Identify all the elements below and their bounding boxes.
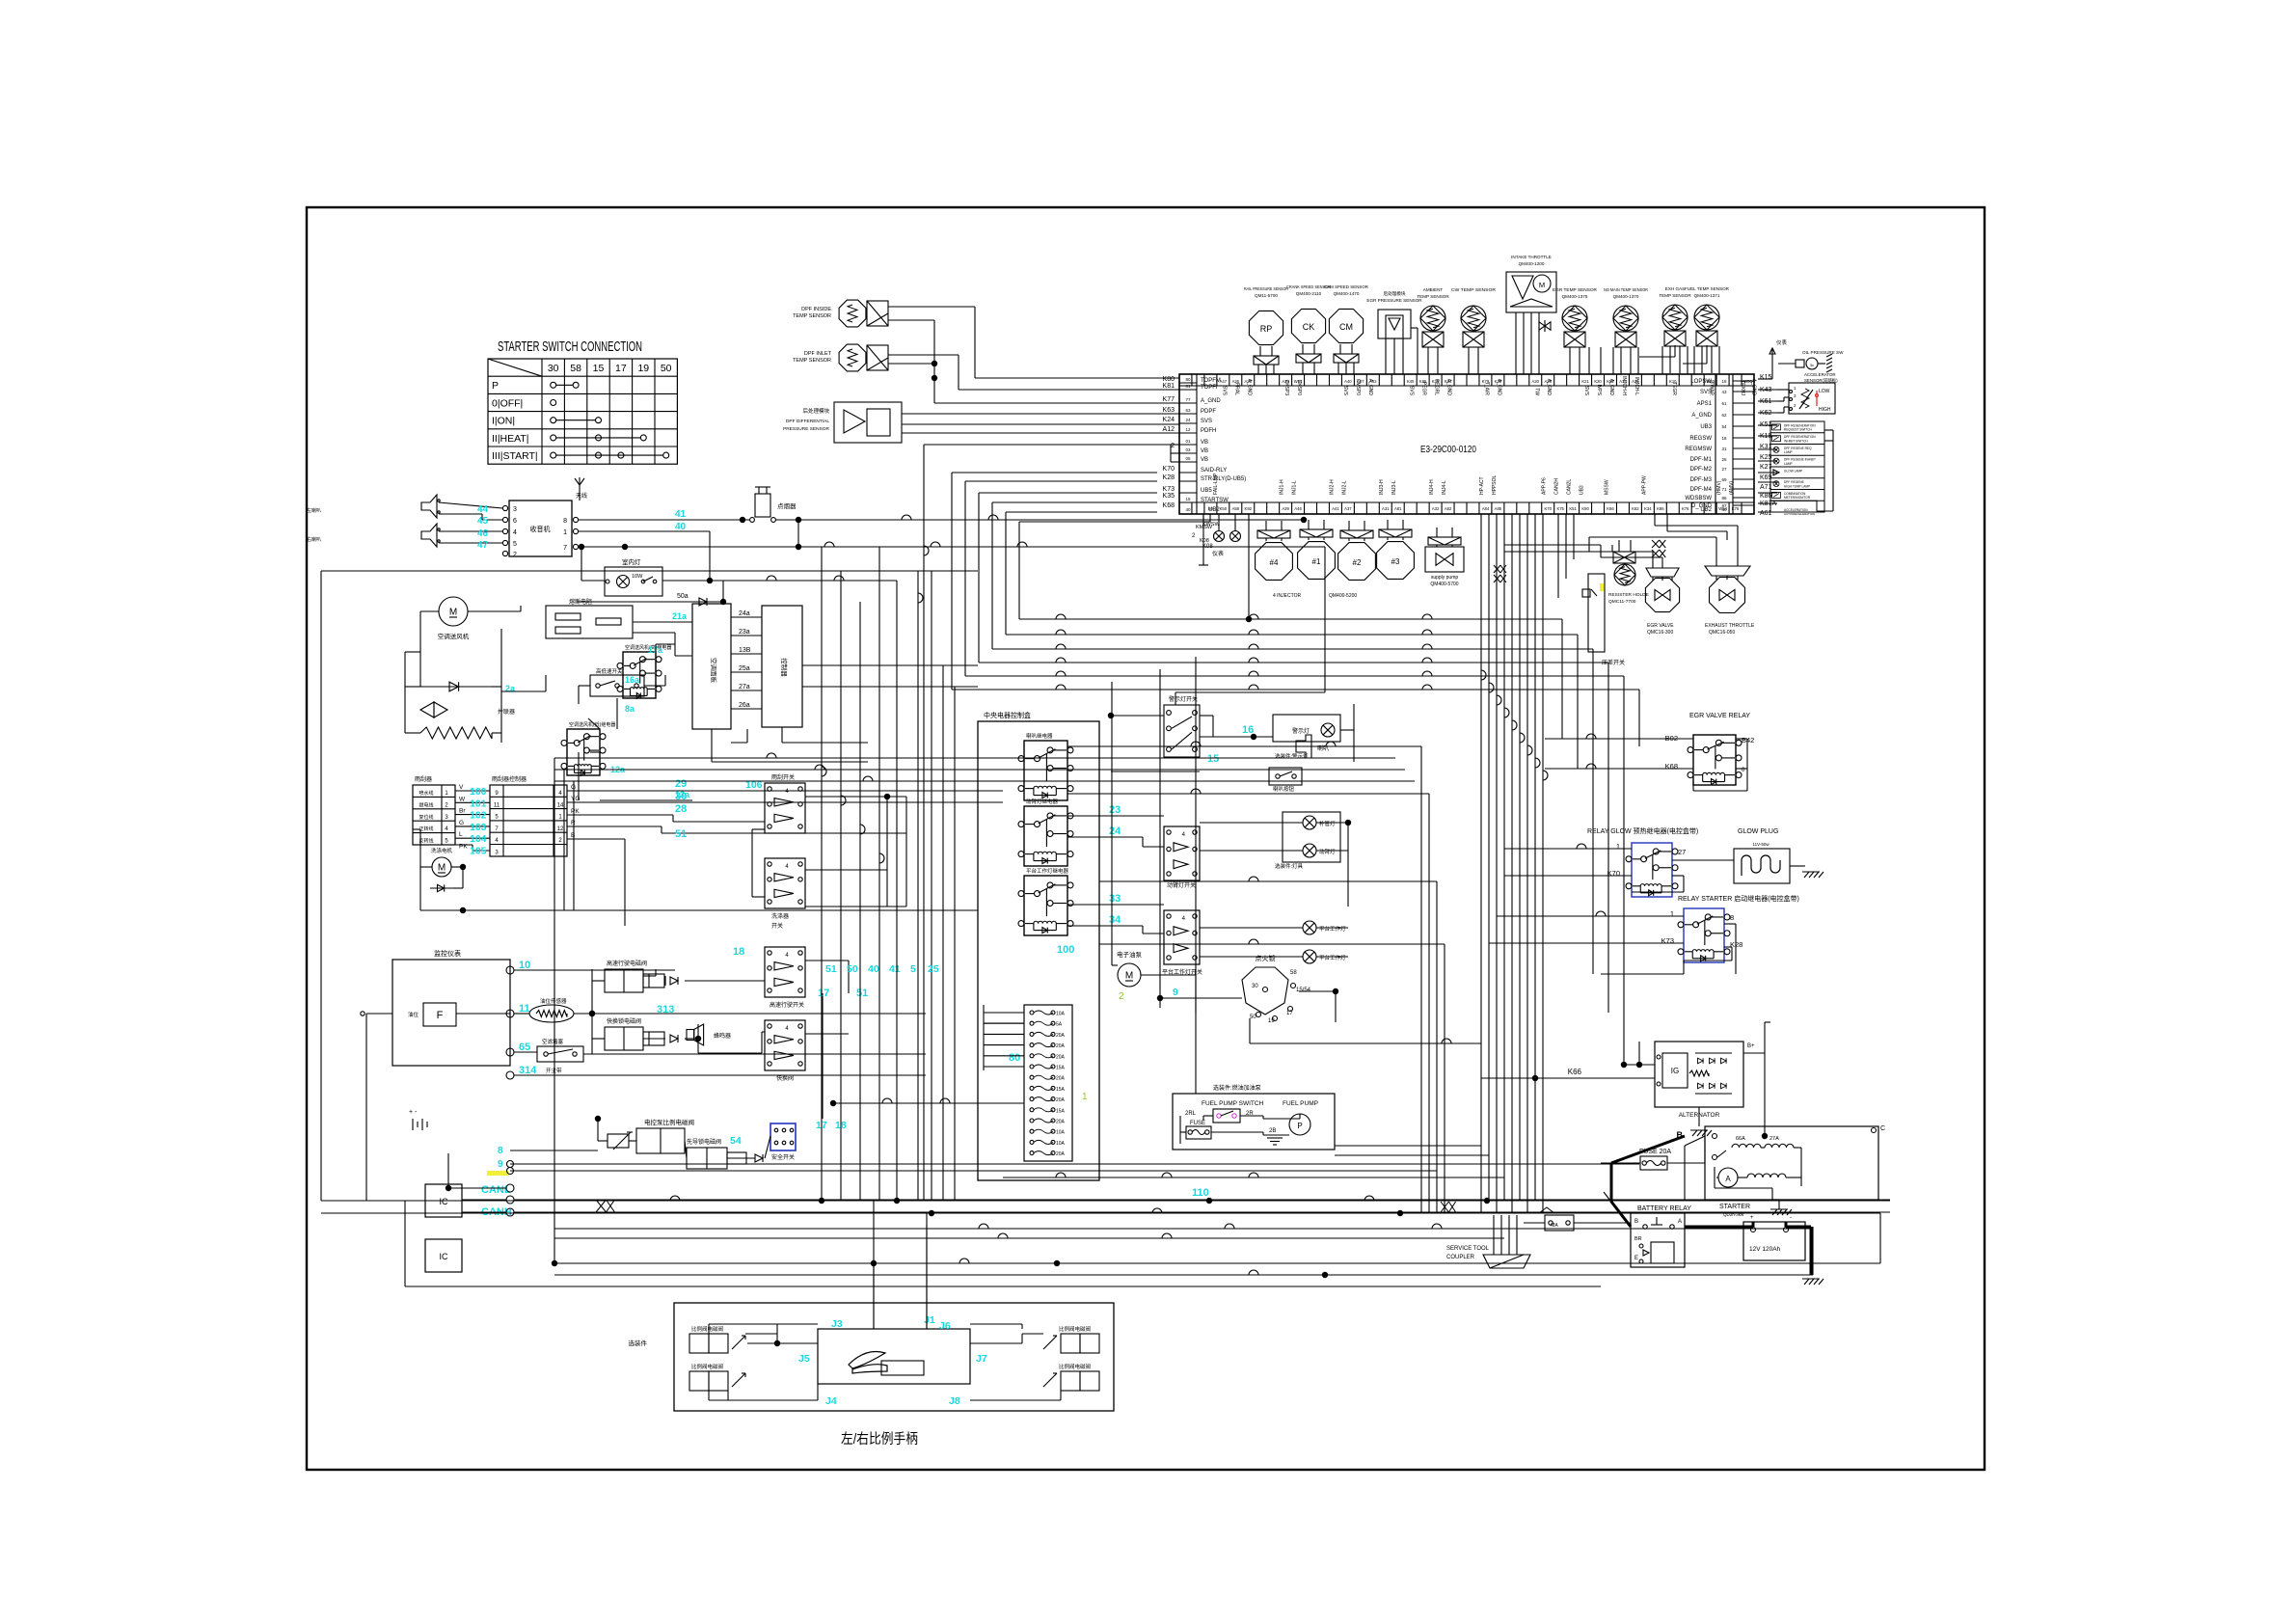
svg-text:比例阀电磁阀: 比例阀电磁阀	[1059, 1363, 1091, 1370]
ac controller	[762, 606, 802, 727]
svg-text:12: 12	[1185, 427, 1191, 432]
svg-text:15: 15	[1185, 497, 1191, 501]
svg-text:PDPF: PDPF	[1201, 409, 1216, 415]
svg-text:CAM SPEED SENSOR: CAM SPEED SENSOR	[1324, 284, 1369, 289]
wire center-right joins	[1335, 734, 1693, 1155]
svg-text:24: 24	[1185, 418, 1191, 422]
wire CAN bus	[446, 1146, 1890, 1238]
svg-text:INHIBIT SWITCH: INHIBIT SWITCH	[1784, 439, 1808, 443]
speaker left	[307, 495, 440, 518]
ignition switch	[1242, 954, 1311, 1024]
resister holder	[1608, 552, 1649, 605]
wire boom	[1067, 804, 1351, 907]
wire sensors misc	[1589, 345, 1719, 374]
svg-text:控制器: 控制器	[780, 658, 789, 677]
svg-text:K34: K34	[1644, 506, 1652, 511]
electric fuel pump	[1117, 950, 1143, 987]
svg-text:雨刮开关: 雨刮开关	[771, 773, 795, 781]
svg-text:61: 61	[1721, 401, 1727, 406]
svg-text:A40: A40	[1344, 379, 1352, 384]
wiper connector	[413, 775, 455, 845]
svg-text:CAN2L: CAN2L	[1567, 479, 1573, 495]
svg-text:25a: 25a	[739, 665, 750, 672]
svg-text:EXHAUST THROTTLE: EXHAUST THROTTLE	[1705, 623, 1755, 629]
svg-text:CAN2H: CAN2H	[1554, 478, 1560, 495]
svg-text:B: B	[1634, 1219, 1638, 1225]
svg-text:EGR VALVE: EGR VALVE	[1647, 623, 1674, 629]
injector #1	[1298, 520, 1336, 579]
svg-text:50: 50	[661, 363, 672, 374]
svg-text:GLOW PLUG: GLOW PLUG	[1738, 828, 1778, 835]
svg-text:K82: K82	[1632, 506, 1639, 511]
svg-text:20A: 20A	[1056, 1120, 1066, 1125]
svg-text:MSSW: MSSW	[1604, 479, 1609, 495]
svg-text:41: 41	[889, 963, 901, 975]
svg-text:高速行驶开关: 高速行驶开关	[770, 1001, 804, 1009]
svg-text:FUEL PUMP: FUEL PUMP	[1283, 1100, 1318, 1107]
svg-text:空调面板: 空调面板	[710, 658, 718, 684]
svg-text:+ -: + -	[409, 1109, 418, 1116]
svg-text:K86: K86	[1657, 506, 1664, 511]
svg-text:TOPFM: TOPFM	[1201, 378, 1221, 384]
svg-text:58: 58	[570, 363, 581, 374]
warning switch	[1164, 695, 1200, 757]
svg-text:喇叭继电器: 喇叭继电器	[1026, 732, 1053, 740]
svg-text:14: 14	[557, 802, 564, 808]
wire room lamp	[577, 544, 897, 605]
svg-text:K68: K68	[1163, 502, 1175, 509]
svg-text:快换锁电磁阀: 快换锁电磁阀	[607, 1017, 641, 1025]
svg-text:16: 16	[1242, 724, 1254, 736]
svg-text:K70: K70	[1163, 466, 1175, 473]
left long verticals 2	[816, 547, 1024, 1201]
svg-text:26a: 26a	[739, 702, 750, 709]
svg-text:K73: K73	[1163, 486, 1175, 493]
DOC temp sensor	[1604, 287, 1649, 374]
svg-text:REGSW: REGSW	[1689, 436, 1712, 442]
svg-text:K20: K20	[1594, 379, 1602, 384]
ECU right pins	[1685, 374, 1754, 514]
svg-text:TWAR: TWAR	[1709, 381, 1715, 395]
svg-text:II|HEAT|: II|HEAT|	[492, 433, 529, 445]
svg-text:洗涤电机: 洗涤电机	[431, 847, 453, 854]
svg-text:电控泵比例电磁阀: 电控泵比例电磁阀	[644, 1118, 694, 1126]
svg-text:8: 8	[498, 1146, 503, 1156]
svg-text:15: 15	[593, 363, 605, 374]
alternator	[1655, 1042, 1755, 1119]
svg-text:高低速开关: 高低速开关	[596, 667, 623, 675]
svg-text:K76: K76	[1682, 506, 1689, 511]
room lamp	[605, 557, 662, 596]
svg-text:80: 80	[1009, 1052, 1020, 1064]
svg-text:QM400-1370: QM400-1370	[1613, 294, 1639, 299]
svg-text:蜂鸣器: 蜂鸣器	[714, 1032, 731, 1040]
ECU left pins	[1179, 374, 1246, 514]
svg-text:K77: K77	[1163, 396, 1175, 403]
svg-text:EGR TEMP SENSOR: EGR TEMP SENSOR	[1553, 287, 1598, 292]
intake throttle	[1506, 255, 1556, 374]
label B	[1677, 1130, 1684, 1140]
ECU bottom signal names	[1213, 473, 1735, 495]
svg-text:INJ3-L: INJ3-L	[1391, 480, 1397, 495]
svg-text:23: 23	[1109, 804, 1121, 816]
svg-text:L: L	[459, 831, 463, 838]
svg-text:点火锁: 点火锁	[1256, 954, 1276, 962]
svg-text:K92: K92	[1245, 506, 1253, 511]
svg-text:RELAY GLOW 预热继电器(电控盒带): RELAY GLOW 预热继电器(电控盒带)	[1587, 826, 1698, 835]
svg-text:9: 9	[1173, 987, 1178, 998]
CW temp sensor	[1451, 287, 1497, 374]
svg-text:收音机: 收音机	[530, 525, 551, 533]
svg-text:54: 54	[1721, 424, 1727, 429]
wire opt	[1758, 390, 1789, 512]
wire handle	[709, 1225, 1061, 1400]
svg-text:K21: K21	[1581, 379, 1589, 384]
svg-text:K08: K08	[1200, 538, 1209, 544]
svg-text:AUTO/DECELERATION: AUTO/DECELERATION	[1784, 512, 1815, 516]
boom lamp relay	[1018, 798, 1073, 866]
handle label	[841, 1431, 918, 1448]
twisted pair center	[1494, 565, 1506, 582]
svg-text:FAIL-LMP: FAIL-LMP	[1213, 473, 1219, 495]
svg-text:仪表: 仪表	[1776, 338, 1788, 346]
svg-text:J3: J3	[831, 1318, 843, 1330]
CAN labels	[481, 1171, 514, 1218]
svg-text:SVS: SVS	[1409, 386, 1415, 396]
svg-text:FUEL PUMP SWITCH: FUEL PUMP SWITCH	[1202, 1100, 1264, 1107]
pressure diff switch	[1582, 574, 1625, 666]
svg-text:室内灯: 室内灯	[622, 557, 641, 566]
buzzer	[687, 1024, 731, 1045]
svg-text:PK: PK	[459, 844, 468, 851]
svg-text:47: 47	[477, 540, 489, 551]
svg-text:M: M	[1539, 281, 1545, 289]
svg-text:RELAY STARTER 启动继电器(电控盒带): RELAY STARTER 启动继电器(电控盒带)	[1678, 894, 1799, 903]
svg-text:反转线: 反转线	[419, 838, 433, 845]
svg-text:21a: 21a	[672, 611, 688, 621]
svg-text:QMC16-050: QMC16-050	[1709, 630, 1735, 636]
svg-text:11V-50w: 11V-50w	[1752, 842, 1769, 847]
wire wiper conn-ctrl	[455, 784, 490, 857]
EGR temp sensor	[1553, 287, 1598, 374]
svg-text:STARTSW: STARTSW	[1201, 498, 1229, 503]
solenoid J7a	[1043, 1325, 1099, 1353]
svg-text:2B: 2B	[1269, 1128, 1276, 1134]
svg-text:UB2: UB2	[1700, 507, 1712, 513]
horn button	[1269, 768, 1302, 793]
svg-text:20A: 20A	[1056, 1054, 1066, 1060]
svg-text:34: 34	[1109, 914, 1121, 926]
svg-text:左/右比例手柄: 左/右比例手柄	[841, 1431, 918, 1448]
svg-text:STR-RLY(D-UB5): STR-RLY(D-UB5)	[1201, 476, 1246, 482]
supply pump	[1425, 528, 1464, 587]
svg-text:27A: 27A	[1769, 1136, 1779, 1142]
svg-text:REQUEST SWITCH: REQUEST SWITCH	[1784, 428, 1813, 432]
platform lamp relay	[1018, 867, 1073, 935]
svg-text:EGR VALVE RELAY: EGR VALVE RELAY	[1689, 713, 1750, 719]
relay starter	[1661, 894, 1799, 962]
svg-text:40: 40	[675, 522, 687, 532]
svg-text:104: 104	[470, 833, 487, 845]
svg-text:40: 40	[1721, 507, 1727, 512]
wire efp	[1141, 975, 1196, 1013]
svg-text:101: 101	[470, 798, 487, 809]
quick lock solenoid	[605, 1017, 678, 1050]
svg-text:A41: A41	[1332, 506, 1339, 511]
DPF differential pressure sensor	[783, 402, 902, 443]
svg-text:K45: K45	[1407, 379, 1415, 384]
svg-text:11: 11	[519, 1003, 530, 1015]
svg-text:HPPSOL: HPPSOL	[1492, 474, 1498, 495]
wire ac section	[321, 571, 978, 1201]
svg-text:K70: K70	[1544, 506, 1552, 511]
accelerator sensor	[1789, 372, 1838, 414]
svg-text:K66: K66	[1607, 506, 1614, 511]
svg-text:K80: K80	[1163, 376, 1175, 383]
svg-text:19: 19	[637, 363, 649, 374]
svg-text:FUSE: FUSE	[1190, 1121, 1205, 1126]
svg-text:313: 313	[657, 1004, 674, 1015]
svg-text:熔断电阻: 熔断电阻	[569, 598, 592, 606]
wire glow	[1595, 849, 1734, 892]
svg-text:A32: A32	[1432, 506, 1440, 511]
wire washer	[413, 829, 978, 913]
ECU top signal names	[1221, 376, 1756, 396]
svg-text:UB2: UB2	[1208, 507, 1220, 513]
DPF inside temp sensor	[793, 300, 888, 327]
svg-text:DPF-M3: DPF-M3	[1690, 477, 1713, 483]
svg-text:J8: J8	[949, 1395, 960, 1407]
svg-text:5: 5	[513, 541, 517, 548]
wire ignition	[1157, 987, 1338, 1043]
svg-text:A_GND: A_GND	[1691, 413, 1712, 419]
option boxes	[1770, 421, 1833, 516]
svg-text:AMBIENT: AMBIENT	[1423, 287, 1444, 292]
svg-text:右喇叭: 右喇叭	[307, 536, 321, 543]
wire EGR nest	[1504, 514, 1738, 568]
cam speed sensor CM	[1324, 284, 1369, 374]
svg-text:0|OFF|: 0|OFF|	[492, 397, 523, 409]
svg-text:A: A	[1725, 1175, 1731, 1183]
svg-text:IVPS: IVPS	[1596, 385, 1602, 396]
svg-text:05: 05	[1185, 456, 1191, 461]
svg-text:24: 24	[1109, 826, 1121, 837]
svg-text:A85: A85	[1495, 506, 1502, 511]
svg-text:UB3: UB3	[1700, 424, 1712, 430]
svg-text:K15: K15	[1760, 374, 1772, 381]
label 110	[1192, 1187, 1209, 1199]
wire bottom buses	[321, 910, 1890, 1286]
svg-text:后处理模块: 后处理模块	[802, 407, 829, 415]
starter ground	[1770, 1200, 1792, 1215]
svg-text:INJ2-H: INJ2-H	[1329, 479, 1335, 495]
svg-text:20A: 20A	[1056, 1043, 1066, 1049]
svg-text:20A: 20A	[1056, 1076, 1066, 1082]
air filter switch	[537, 1038, 583, 1062]
battery ground	[1802, 1279, 1823, 1285]
svg-text:平台工作灯继电器: 平台工作灯继电器	[1026, 867, 1069, 875]
washer switch 2	[765, 858, 805, 930]
svg-text:比例阀电磁阀: 比例阀电磁阀	[1059, 1325, 1091, 1333]
wire speakers-radio	[439, 502, 502, 551]
svg-text:18: 18	[1721, 436, 1727, 441]
svg-text:8a: 8a	[625, 704, 635, 714]
svg-text:A81: A81	[1394, 506, 1402, 511]
svg-text:P: P	[492, 380, 499, 392]
glow plug	[1734, 828, 1823, 883]
wire pilot	[510, 1116, 770, 1158]
svg-text:动臂灯: 动臂灯	[1319, 848, 1336, 855]
svg-text:UB5: UB5	[1201, 488, 1212, 494]
svg-text:41: 41	[675, 509, 687, 520]
ECU left external labels	[1163, 376, 1175, 509]
boom lamp switch	[1164, 826, 1200, 889]
ECU E3-29C00-0120	[1179, 374, 1754, 514]
svg-text:P: P	[1297, 1122, 1302, 1130]
svg-text:2: 2	[1119, 991, 1124, 1002]
svg-text:J1: J1	[924, 1314, 935, 1326]
svg-text:supply pump: supply pump	[1431, 575, 1459, 581]
EXH gas temp sensor	[1659, 286, 1691, 373]
svg-text:J6: J6	[939, 1320, 951, 1332]
svg-text:APP-P6: APP-P6	[1542, 477, 1548, 495]
svg-text:REGMSW: REGMSW	[1685, 447, 1712, 452]
svg-text:86: 86	[1721, 496, 1727, 501]
svg-text:高速行驶电磁阀: 高速行驶电磁阀	[607, 960, 647, 967]
ambient temp sensor	[1417, 287, 1449, 374]
svg-text:INJCH-L: INJCH-L	[1634, 377, 1639, 395]
svg-text:17: 17	[816, 1120, 827, 1131]
fuel level sensor	[529, 997, 574, 1022]
svg-text:洗涤器: 洗涤器	[771, 912, 789, 920]
svg-text:A_GND: A_GND	[1246, 379, 1252, 396]
handle J labels	[798, 1314, 987, 1407]
svg-text:K75: K75	[1556, 506, 1564, 511]
svg-text:空调送风机: 空调送风机	[438, 632, 470, 640]
boom lamps	[1275, 812, 1340, 870]
pilot valves	[608, 1118, 763, 1169]
svg-text:HIGH TEMP LAMP: HIGH TEMP LAMP	[1784, 484, 1810, 488]
svg-text:25: 25	[1721, 457, 1727, 462]
switch quick	[657, 1004, 805, 1082]
svg-text:2: 2	[513, 552, 517, 558]
wire platform	[1057, 893, 1348, 957]
starter	[1705, 1125, 1885, 1217]
svg-text:TEMP SENSOR: TEMP SENSOR	[1659, 293, 1691, 298]
svg-text:15/54: 15/54	[1296, 988, 1311, 993]
injector #2	[1338, 521, 1376, 580]
svg-text:K35: K35	[1163, 493, 1175, 500]
svg-text:(AMV): (AMV)	[1729, 481, 1735, 496]
svg-text:安全开关: 安全开关	[771, 1153, 795, 1161]
svg-text:#4: #4	[1270, 558, 1279, 567]
svg-text:K73: K73	[1661, 936, 1674, 945]
svg-text:DPF-M2: DPF-M2	[1690, 467, 1713, 473]
svg-text:喇叭: 喇叭	[1317, 744, 1329, 752]
svg-text:BATTERY RELAY: BATTERY RELAY	[1637, 1205, 1691, 1212]
svg-text:15: 15	[1721, 379, 1727, 384]
svg-text:18: 18	[835, 1120, 847, 1131]
svg-text:油位传感器: 油位传感器	[540, 997, 567, 1005]
svg-text:A_GND: A_GND	[1201, 398, 1221, 404]
svg-text:TEXHJ: TEXHJ	[1740, 380, 1745, 395]
svg-text:GLOW LAMP: GLOW LAMP	[1784, 469, 1802, 473]
svg-text:54: 54	[730, 1135, 742, 1147]
IC box 2	[425, 1239, 462, 1272]
oil pressure switch	[1758, 338, 1844, 379]
starter switch connection table	[488, 338, 677, 464]
svg-text:12V 120Ah: 12V 120Ah	[1749, 1246, 1781, 1253]
svg-text:16a: 16a	[625, 675, 640, 685]
svg-text:开关: 开关	[771, 922, 783, 930]
svg-text:30: 30	[675, 791, 687, 802]
svg-text:27: 27	[1678, 848, 1686, 856]
svg-text:PRESSURE SENSOR: PRESSURE SENSOR	[783, 426, 830, 432]
svg-text:71: 71	[1721, 487, 1727, 492]
wire fusebox feeds	[984, 1005, 1024, 1070]
svg-text:33: 33	[1109, 893, 1121, 905]
svg-text:K28: K28	[1163, 474, 1175, 481]
ac fan relay high	[617, 644, 671, 698]
svg-text:EGR PRESSURE SENSOR: EGR PRESSURE SENSOR	[1366, 298, 1422, 303]
svg-text:25: 25	[928, 963, 939, 975]
svg-text:IG: IG	[1671, 1067, 1679, 1075]
exhaust throttle	[1705, 566, 1755, 636]
svg-text:K81: K81	[1163, 383, 1175, 390]
svg-text:17: 17	[615, 363, 627, 374]
wire VB	[924, 445, 1179, 1201]
ac panel	[692, 604, 731, 729]
svg-text:I|ON|: I|ON|	[492, 416, 515, 427]
svg-text:2: 2	[1171, 443, 1175, 449]
svg-text:动臂灯继电器: 动臂灯继电器	[1026, 798, 1059, 805]
wire bundle right	[1558, 514, 1655, 1068]
wire ac panel-controller	[731, 610, 762, 709]
svg-text:A31: A31	[1382, 506, 1390, 511]
svg-text:监控仪表: 监控仪表	[434, 949, 461, 958]
wire starter relay	[1601, 916, 1736, 974]
svg-text:RESISTER HOLDE: RESISTER HOLDE	[1608, 592, 1649, 598]
svg-text:8: 8	[563, 518, 567, 525]
svg-text:#2: #2	[1353, 558, 1362, 567]
svg-text:QM11-5700: QM11-5700	[1255, 293, 1278, 298]
fuel pump assembly	[1173, 1084, 1335, 1150]
svg-text:油位: 油位	[408, 1011, 419, 1018]
svg-text:5A: 5A	[1056, 1022, 1063, 1028]
svg-text:VB: VB	[1201, 448, 1208, 454]
DPF inlet temp sensor	[793, 344, 888, 371]
svg-text:31: 31	[1721, 447, 1727, 451]
svg-text:B+: B+	[1747, 1043, 1755, 1049]
svg-text:50: 50	[847, 963, 858, 975]
svg-text:J4: J4	[825, 1395, 837, 1407]
svg-text:STARTER: STARTER	[1719, 1204, 1750, 1210]
svg-text:W: W	[459, 796, 466, 802]
twisted cross	[1652, 540, 1665, 557]
svg-text:A37: A37	[1344, 506, 1352, 511]
svg-text:10A: 10A	[1056, 1012, 1066, 1017]
svg-text:V: V	[459, 784, 464, 791]
svg-text:#3: #3	[1391, 557, 1400, 566]
svg-text:27a: 27a	[739, 684, 750, 690]
svg-text:18: 18	[733, 946, 744, 958]
svg-text:1: 1	[1670, 909, 1674, 918]
radio unit	[502, 477, 587, 558]
svg-text:K68: K68	[1665, 762, 1678, 771]
svg-text:INJ3-H: INJ3-H	[1379, 479, 1385, 495]
svg-text:2RL: 2RL	[1185, 1111, 1197, 1117]
ac fan motor	[438, 597, 470, 640]
